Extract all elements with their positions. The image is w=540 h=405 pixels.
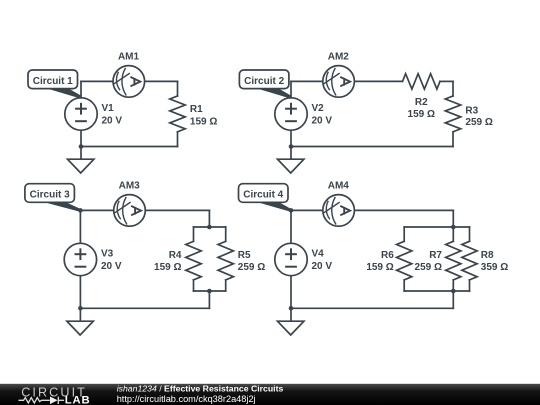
svg-text:259 Ω: 259 Ω	[238, 262, 265, 273]
wire C1 top (V1 to R1)	[81, 80, 178, 82]
ammeter AM3	[114, 195, 146, 227]
callout "Circuit 2"	[239, 70, 291, 99]
wire C3 bottom	[80, 307, 209, 309]
wire R5 top lead	[225, 227, 227, 241]
wire C1 bottom	[81, 146, 178, 148]
wire R1 bottom lead	[177, 132, 179, 147]
resistor R6	[397, 241, 412, 280]
svg-text:AM1: AM1	[118, 52, 140, 63]
svg-text:R3: R3	[465, 105, 478, 116]
junction node C3 bottom	[78, 306, 83, 311]
wire C2 V2 bottom to ground	[290, 130, 292, 159]
wire C1 V1 top lead	[80, 81, 82, 98]
callout "Circuit 3"	[25, 184, 81, 212]
svg-text:159 Ω: 159 Ω	[190, 116, 217, 127]
junction node C3 parallel top	[207, 225, 212, 230]
junction node C2 bottom	[289, 144, 294, 149]
wire R6 bottom lead	[403, 280, 405, 291]
wire R5 bottom lead	[225, 280, 227, 291]
CircuitLab logo: resistor-diode symbol	[19, 397, 65, 404]
svg-text:V4: V4	[312, 249, 325, 260]
wire bus to bottom C3	[208, 291, 210, 308]
svg-text:Circuit 4: Circuit 4	[243, 190, 283, 201]
svg-text:359 Ω: 359 Ω	[481, 262, 508, 273]
ground GND C4	[278, 321, 304, 335]
callout "Circuit 1"	[28, 70, 81, 99]
ground GND C3	[67, 321, 93, 335]
ammeter AM1	[113, 66, 145, 98]
wire R1 top lead	[177, 81, 179, 96]
resistor R5	[218, 241, 233, 280]
junction node C3 parallel bottom	[207, 289, 212, 294]
svg-text:Circuit 3: Circuit 3	[30, 190, 70, 201]
svg-text:AM3: AM3	[119, 181, 141, 192]
svg-text:V1: V1	[102, 103, 115, 114]
resistor R3	[445, 96, 460, 132]
svg-text:R6: R6	[381, 250, 394, 261]
wire C3 V3 top lead	[79, 210, 81, 243]
voltage source V1	[65, 98, 97, 130]
wire bus to bottom C4	[452, 291, 454, 308]
wire C4 bottom bus	[404, 290, 469, 292]
svg-text:AM2: AM2	[328, 52, 350, 63]
wire R7 bottom lead	[452, 280, 454, 291]
svg-text:159 Ω: 159 Ω	[366, 262, 393, 273]
ground GND C2	[278, 159, 304, 173]
svg-text:Circuit 2: Circuit 2	[244, 76, 284, 87]
resistor R8	[462, 241, 477, 280]
svg-text:R7: R7	[429, 250, 442, 261]
ammeter AM2	[323, 66, 355, 98]
svg-text:20 V: 20 V	[101, 261, 122, 272]
svg-text:AM4: AM4	[328, 181, 350, 192]
wire C2 bottom	[291, 146, 453, 148]
wire R4 bottom lead	[193, 280, 195, 291]
wire C4 V4 bottom to ground	[290, 276, 292, 321]
CircuitLab logo: diode triangle	[50, 397, 58, 405]
svg-text:R4: R4	[169, 250, 182, 261]
junction node C1 bottom	[79, 144, 84, 149]
wire C2 top (V2 to R2)	[291, 80, 403, 82]
junction node C4 bottom	[289, 306, 294, 311]
callout "Circuit 4"	[239, 184, 292, 212]
wire R4 top lead	[193, 227, 195, 241]
svg-text:V3: V3	[101, 249, 114, 260]
svg-text:259 Ω: 259 Ω	[465, 117, 492, 128]
svg-text:259 Ω: 259 Ω	[415, 262, 442, 273]
ammeter AM4	[323, 195, 355, 227]
wire C4 bottom	[291, 307, 453, 309]
svg-text:LAB: LAB	[65, 394, 91, 405]
wire C3 top bus	[194, 226, 226, 228]
wire C3 V3 bottom to ground	[79, 276, 81, 321]
wire R8 bottom lead	[469, 280, 471, 291]
wire C3 top (V3 to corner)	[80, 209, 209, 211]
svg-text:http://circuitlab.com/ckq38r2a: http://circuitlab.com/ckq38r2a48j2j	[117, 394, 256, 404]
wire corner to top bus C4	[452, 210, 454, 227]
resistor R7	[446, 241, 461, 280]
svg-text:20 V: 20 V	[312, 115, 333, 126]
wire R7 top lead	[452, 227, 454, 241]
junction node C4 parallel top	[451, 225, 456, 230]
wire R6 top lead	[403, 227, 405, 241]
svg-text:V2: V2	[312, 103, 325, 114]
wire C1 V1 bottom to ground	[80, 130, 82, 159]
voltage source V2	[275, 98, 307, 130]
svg-text:R8: R8	[481, 250, 494, 261]
svg-text:ishan1234 / Effective Resistan: ishan1234 / Effective Resistance Circuit…	[117, 384, 284, 394]
svg-text:R2: R2	[415, 97, 428, 108]
svg-text:Circuit 1: Circuit 1	[33, 76, 73, 87]
wire C4 V4 top lead	[290, 210, 292, 243]
wire C4 top (V4 to corner)	[291, 209, 453, 211]
junction node C4 top	[289, 208, 294, 213]
wire R8 top lead	[469, 227, 471, 241]
svg-text:R1: R1	[190, 104, 203, 115]
junction node C3 top	[78, 208, 83, 213]
wire R3 bottom lead	[452, 132, 454, 147]
svg-text:159 Ω: 159 Ω	[154, 262, 181, 273]
voltage source V4	[275, 243, 307, 275]
svg-text:20 V: 20 V	[312, 261, 333, 272]
svg-text:R5: R5	[238, 250, 251, 261]
wire R2 to corner	[440, 80, 453, 82]
resistor R2	[403, 74, 441, 89]
wire C4 top bus	[404, 226, 469, 228]
svg-text:159 Ω: 159 Ω	[408, 109, 435, 120]
wire corner to top bus C3	[208, 210, 210, 227]
wire C2 V2 top lead	[290, 81, 292, 98]
resistor R4	[186, 241, 201, 280]
junction node C4 parallel bottom	[451, 289, 456, 294]
resistor R1	[170, 96, 185, 132]
voltage source V3	[64, 243, 96, 275]
wire C3 bottom bus	[194, 290, 226, 292]
ground GND C1	[68, 159, 94, 173]
wire R3 top lead	[452, 81, 454, 96]
svg-text:20 V: 20 V	[102, 115, 123, 126]
